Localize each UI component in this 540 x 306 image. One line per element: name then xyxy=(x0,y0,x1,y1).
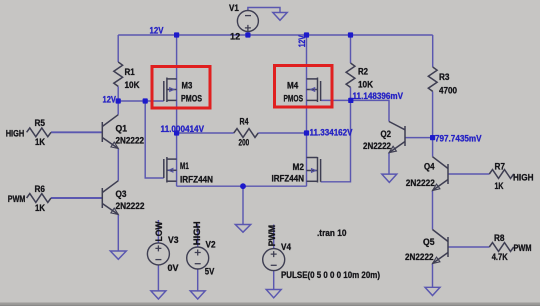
mosfet M4 PMOS (mirrored) xyxy=(307,78,321,103)
wire 12V node to M3 gate xyxy=(118,100,164,102)
wire left half-bridge conductor M3/M1 xyxy=(176,35,178,186)
svg-text:PWM: PWM xyxy=(8,194,26,204)
wire rail to R1 top xyxy=(117,35,119,62)
svg-text:5V: 5V xyxy=(205,266,215,276)
wire R4 row left xyxy=(177,132,234,134)
wire Q4 emitter to Q5 collector xyxy=(432,191,434,230)
svg-text:10K: 10K xyxy=(358,80,373,90)
wire R5 to Q1 base xyxy=(51,131,102,133)
svg-text:IRFZ44N: IRFZ44N xyxy=(180,175,213,185)
resistor R2 xyxy=(346,63,355,87)
wire rail corner to R3 top xyxy=(432,35,434,67)
wire Q2 emitter down xyxy=(388,153,390,174)
node junction 12V node M1-gate branch xyxy=(143,98,148,103)
resistor R1 xyxy=(114,62,123,86)
svg-text:1K: 1K xyxy=(495,181,504,191)
svg-text:M3: M3 xyxy=(182,80,193,90)
svg-text:M1: M1 xyxy=(180,161,189,171)
svg-text:V2: V2 xyxy=(206,240,216,250)
svg-text:R3: R3 xyxy=(439,72,450,82)
svg-text:V1: V1 xyxy=(229,3,239,13)
wire V3 bottom to ground xyxy=(157,265,159,291)
svg-text:R7: R7 xyxy=(495,161,506,171)
svg-text:PMOS: PMOS xyxy=(284,93,304,103)
svg-text:2N2222: 2N2222 xyxy=(116,135,145,145)
wire R3 bottom to 797 node xyxy=(432,91,434,137)
wire bottom source bus xyxy=(177,185,307,187)
svg-text:HIGH: HIGH xyxy=(192,221,202,245)
wire Q1 emitter to Q3 collector xyxy=(117,149,119,181)
node junction rail/R2 xyxy=(348,32,353,37)
node junction output left 11.000414V xyxy=(174,130,179,135)
node junction rail/M3 xyxy=(174,32,179,37)
node junction output right 11.334162V xyxy=(304,130,309,135)
wire top 12V rail xyxy=(118,34,433,36)
svg-text:Q5: Q5 xyxy=(423,237,435,247)
svg-text:R1: R1 xyxy=(125,67,135,77)
wire Q1 collector up xyxy=(117,101,119,115)
node junction 11.148396mV xyxy=(348,98,353,103)
svg-text:2N2222: 2N2222 xyxy=(405,252,434,262)
ground Q3 xyxy=(110,251,126,259)
node junction source bus xyxy=(240,183,246,189)
wire R2 bottom to node xyxy=(350,87,352,100)
svg-text:12V: 12V xyxy=(103,95,117,105)
svg-text:2N2222: 2N2222 xyxy=(363,141,391,151)
ground V3 xyxy=(151,291,166,299)
svg-text:10K: 10K xyxy=(125,80,140,90)
resistor R8 xyxy=(489,243,513,252)
svg-text:1K: 1K xyxy=(35,137,45,147)
wire Q4 base to R7 xyxy=(448,173,489,175)
svg-text:Q1: Q1 xyxy=(116,123,128,133)
svg-text:M4: M4 xyxy=(287,80,298,90)
wire rail to R2 top xyxy=(350,35,352,63)
svg-text:R2: R2 xyxy=(358,67,368,77)
wire bus to mid ground xyxy=(242,186,244,224)
svg-text:PWM: PWM xyxy=(267,225,277,247)
svg-text:R4: R4 xyxy=(240,117,249,127)
wire V2 top stub HIGH xyxy=(197,224,199,247)
svg-text:HIGH: HIGH xyxy=(513,172,534,182)
wire V3 top stub LOW xyxy=(157,220,159,243)
svg-text:M2: M2 xyxy=(293,162,305,172)
transistor Q1 xyxy=(102,115,118,149)
svg-text:R6: R6 xyxy=(35,184,46,194)
wire Q3 emitter down xyxy=(117,215,119,252)
mosfet M3 PMOS xyxy=(164,78,177,103)
wire 797 node to Q4 collector xyxy=(432,138,434,157)
ground V2 xyxy=(190,291,205,299)
voltage source V3 xyxy=(147,243,169,265)
svg-text:0V: 0V xyxy=(168,263,179,273)
wire V2 bottom to ground xyxy=(197,269,199,291)
svg-text:4700: 4700 xyxy=(439,86,457,96)
svg-text:12V: 12V xyxy=(297,35,307,47)
svg-text:12: 12 xyxy=(230,31,240,41)
svg-text:V3: V3 xyxy=(168,235,179,245)
svg-text:11.334162V: 11.334162V xyxy=(310,128,353,138)
ground Q5 xyxy=(425,287,440,295)
resistor R6 xyxy=(27,194,51,203)
resistor R5 xyxy=(27,128,51,137)
highlight box M3 xyxy=(152,67,210,109)
bottom edge dark band xyxy=(0,303,540,306)
svg-text:PWM: PWM xyxy=(514,243,532,253)
svg-text:4.7K: 4.7K xyxy=(492,252,508,262)
svg-text:LOW: LOW xyxy=(154,221,164,241)
ground V1 xyxy=(273,13,287,21)
resistor R4 xyxy=(234,129,258,138)
transistor Q3 xyxy=(102,181,118,215)
svg-text:11.000414V: 11.000414V xyxy=(161,124,205,134)
voltage source V4 xyxy=(263,249,285,271)
svg-text:R5: R5 xyxy=(35,118,46,128)
voltage source V1 xyxy=(237,11,258,32)
wire Q5 base to R8 xyxy=(448,246,489,248)
transistor Q4 xyxy=(433,157,449,191)
svg-text:Q3: Q3 xyxy=(116,189,127,199)
svg-text:PMOS: PMOS xyxy=(181,93,202,103)
ground V4 xyxy=(266,290,281,298)
svg-text:PULSE(0 5 0 0 0 10m 20m): PULSE(0 5 0 0 0 10m 20m) xyxy=(281,270,380,280)
wire right half-bridge conductor M4/M2 xyxy=(306,35,308,186)
resistor R3 xyxy=(428,67,437,91)
svg-text:1K: 1K xyxy=(35,203,45,213)
wire 12V node branch to M1 gate xyxy=(145,101,164,178)
svg-text:2N2222: 2N2222 xyxy=(406,178,435,188)
svg-text:200: 200 xyxy=(239,138,250,148)
highlight box M4 xyxy=(275,66,333,108)
svg-text:HIGH: HIGH xyxy=(6,128,25,138)
node junction 12V node at R1/Q1 xyxy=(116,98,121,103)
svg-text:R8: R8 xyxy=(494,233,505,243)
transistor Q5 xyxy=(433,230,449,264)
wire R4 row right xyxy=(258,132,306,134)
mosfet M1 NMOS IRFZ44N xyxy=(164,157,177,183)
node junction rail/M4 xyxy=(304,32,309,37)
resistor R7 xyxy=(489,170,513,179)
wire M4 gate to node xyxy=(321,99,351,101)
svg-text:Q2: Q2 xyxy=(381,129,392,139)
wire V1 plus lead to rail xyxy=(247,32,249,36)
wire V1 minus lead to ground xyxy=(248,8,280,13)
ground Q2 xyxy=(382,174,397,182)
svg-text:797.7435mV: 797.7435mV xyxy=(435,133,482,143)
svg-text:11.148396mV: 11.148396mV xyxy=(353,91,404,101)
wire V4 top stub PWM xyxy=(273,225,275,249)
wire V4 bottom to ground xyxy=(273,271,275,290)
svg-text:2N2222: 2N2222 xyxy=(116,201,145,211)
wire R1 bottom to 12V node xyxy=(117,86,119,101)
svg-text:.tran 10: .tran 10 xyxy=(317,228,347,238)
wire Q5 emitter down xyxy=(432,264,434,288)
svg-text:IRFZ44N: IRFZ44N xyxy=(272,173,305,183)
svg-text:V4: V4 xyxy=(281,242,291,252)
svg-text:Q4: Q4 xyxy=(424,161,435,171)
wire node to Q2 collector xyxy=(351,100,390,121)
node junction 797.7435mV xyxy=(430,135,435,140)
svg-text:12V: 12V xyxy=(150,25,164,35)
transistor Q2 xyxy=(389,122,405,153)
ground mid bus xyxy=(235,225,250,233)
wire Q2 base to 797 node xyxy=(405,137,433,139)
mosfet M2 NMOS IRFZ44N (mirrored) xyxy=(307,157,321,183)
voltage source V2 xyxy=(187,247,209,269)
node junction rail/V1 xyxy=(245,32,250,37)
wire node down to M2 gate xyxy=(321,100,351,181)
wire R6 to Q3 base xyxy=(51,197,102,199)
